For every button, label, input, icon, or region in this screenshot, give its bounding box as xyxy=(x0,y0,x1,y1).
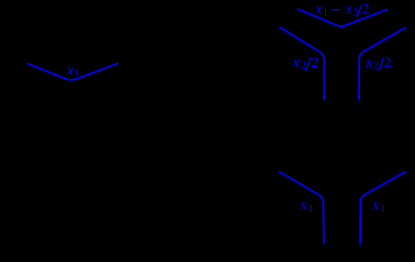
svg-text:2: 2 xyxy=(384,55,392,71)
wire: top V branch (weight x1 - x2/2) xyxy=(297,9,388,27)
svg-text:x: x xyxy=(344,2,352,18)
wire: upper-right inner branch (weight x2/2) xyxy=(359,27,406,100)
svg-text:x: x xyxy=(314,2,322,18)
label x2/2 (left) xyxy=(292,55,319,72)
svg-text:x: x xyxy=(66,62,74,78)
wire: upper-left inner branch (weight x2/2) xyxy=(280,27,325,100)
wire: lower-right branch (weight x1) xyxy=(360,171,406,244)
svg-text:1: 1 xyxy=(380,203,386,215)
svg-text:2: 2 xyxy=(311,55,319,71)
svg-text:x: x xyxy=(292,55,300,71)
svg-text:x: x xyxy=(299,197,307,213)
svg-text:1: 1 xyxy=(308,203,314,215)
svg-text:1: 1 xyxy=(323,6,329,18)
label x1 - x2/2 (top V) xyxy=(314,2,369,19)
label x2/2 (right) xyxy=(365,55,392,72)
wire: left V branch (weight x1) xyxy=(27,63,118,80)
label x1 (left V) xyxy=(66,62,80,79)
wire: lower-left branch (weight x1) xyxy=(279,172,324,245)
svg-text:1: 1 xyxy=(74,67,80,79)
svg-text:x: x xyxy=(365,55,373,71)
label x1 (bottom left) xyxy=(299,197,313,215)
label x1 (bottom right) xyxy=(371,197,385,215)
svg-text:2: 2 xyxy=(374,59,380,71)
svg-text:2: 2 xyxy=(362,2,370,18)
svg-text:x: x xyxy=(371,197,379,213)
svg-text:2: 2 xyxy=(301,59,307,71)
